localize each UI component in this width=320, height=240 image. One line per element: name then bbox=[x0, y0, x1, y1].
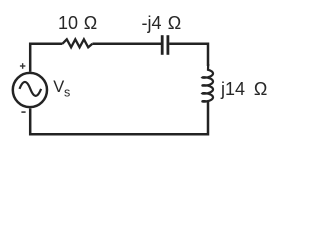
minus polarity mark bbox=[21, 111, 25, 113]
wire capacitor-to-topright-corner bbox=[169, 44, 208, 66]
wire resistor-to-capacitor bbox=[92, 42, 161, 45]
svg-text:s: s bbox=[64, 86, 70, 100]
wire top-left segment bbox=[30, 44, 62, 72]
AC source sine wave bbox=[20, 82, 42, 96]
svg-text:V: V bbox=[53, 78, 64, 96]
svg-text:Ω: Ω bbox=[254, 79, 267, 99]
plus polarity mark bbox=[20, 63, 26, 69]
AC source Vs circle bbox=[13, 73, 47, 107]
svg-text:Ω: Ω bbox=[168, 13, 181, 33]
svg-text:-j4: -j4 bbox=[142, 13, 162, 33]
resistor 10Ω bbox=[63, 39, 93, 47]
capacitor -j4Ω bbox=[162, 35, 168, 55]
svg-text:10: 10 bbox=[58, 13, 78, 33]
svg-text:j14: j14 bbox=[220, 79, 245, 99]
svg-text:Ω: Ω bbox=[84, 13, 97, 33]
wire inductor-to-bottom bbox=[30, 101, 208, 134]
inductor j14Ω bbox=[202, 64, 213, 102]
